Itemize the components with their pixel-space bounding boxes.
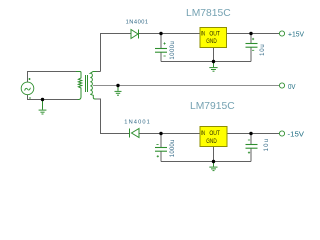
wire secondary top lead [97, 71, 101, 73]
svg-text:1000u: 1000u [170, 140, 176, 158]
diode D1 1N4001 [131, 30, 139, 39]
svg-text:IN: IN [201, 130, 205, 137]
wire top ground rail [161, 61, 251, 63]
junction C2 top [249, 32, 252, 35]
svg-text:OUT: OUT [209, 130, 220, 137]
wire regulator U1 GND lead [213, 48, 215, 62]
svg-text:GND: GND [206, 138, 216, 145]
wire bottom ground rail [161, 161, 251, 163]
transformer T1 secondary winding [90, 72, 96, 100]
capacitor C2 10u [246, 44, 258, 48]
wire secondary bottom lead down [97, 99, 130, 134]
wire diode D1 cathode to regulator U1 IN [139, 33, 200, 35]
terminal -15V [279, 131, 284, 136]
regulator U1 LM7815C [200, 28, 227, 48]
svg-text:10u: 10u [264, 139, 270, 152]
wire 0V rail (centre tap) [93, 85, 279, 87]
wire regulator U2 OUT to -15V terminal [227, 133, 279, 135]
svg-text:1N4001: 1N4001 [126, 19, 149, 25]
junction C1 top [159, 32, 162, 35]
svg-text:IN: IN [201, 31, 205, 38]
ac source V1 [21, 78, 34, 98]
svg-text:0V: 0V [288, 82, 296, 91]
svg-text:-15V: -15V [288, 130, 305, 139]
junction centre tap ground [116, 84, 119, 87]
svg-text:+15V: +15V [288, 30, 304, 39]
wire capacitor C4 leads [250, 134, 252, 162]
wire regulator U2 GND lead [213, 147, 215, 162]
capacitor C3 1000u [155, 148, 167, 152]
wire capacitor C1 leads [160, 34, 162, 62]
ground (primary) [39, 100, 47, 115]
svg-text:LM7815C: LM7815C [186, 8, 231, 19]
junction C4 top [249, 132, 252, 135]
capacitor C4 10u [246, 145, 258, 149]
wire capacitor C2 leads [250, 34, 252, 62]
wire primary loop top [28, 72, 77, 83]
junction C3 top [159, 132, 162, 135]
junction primary ground tap [41, 98, 44, 101]
wire diode D2 to regulator U2 IN [139, 133, 200, 135]
wire primary loop bottom [28, 95, 78, 100]
svg-text:1000u: 1000u [170, 41, 176, 60]
svg-text:GND: GND [206, 38, 216, 45]
junction U2 ground [212, 160, 215, 163]
capacitor C1 1000u [155, 49, 167, 53]
ground (U2) [209, 162, 217, 171]
wire top rail from transformer to diode D1 [101, 34, 132, 72]
regulator U2 LM7915C [200, 127, 227, 147]
terminal 0V [279, 83, 284, 88]
wire regulator U1 OUT to +15V terminal [227, 33, 280, 35]
junction U1 ground [212, 60, 215, 63]
diode D2 1N4001 [130, 129, 140, 138]
ground (U1) [209, 62, 217, 72]
wire capacitor C3 leads [160, 134, 162, 162]
svg-text:10u: 10u [260, 44, 266, 56]
svg-text:LM7915C: LM7915C [190, 101, 235, 112]
transformer T1 primary winding [76, 72, 82, 100]
svg-text:OUT: OUT [209, 31, 220, 38]
ground (centre tap) [115, 86, 122, 96]
terminal +15V [279, 31, 284, 36]
transformer T1 core [86, 75, 88, 92]
